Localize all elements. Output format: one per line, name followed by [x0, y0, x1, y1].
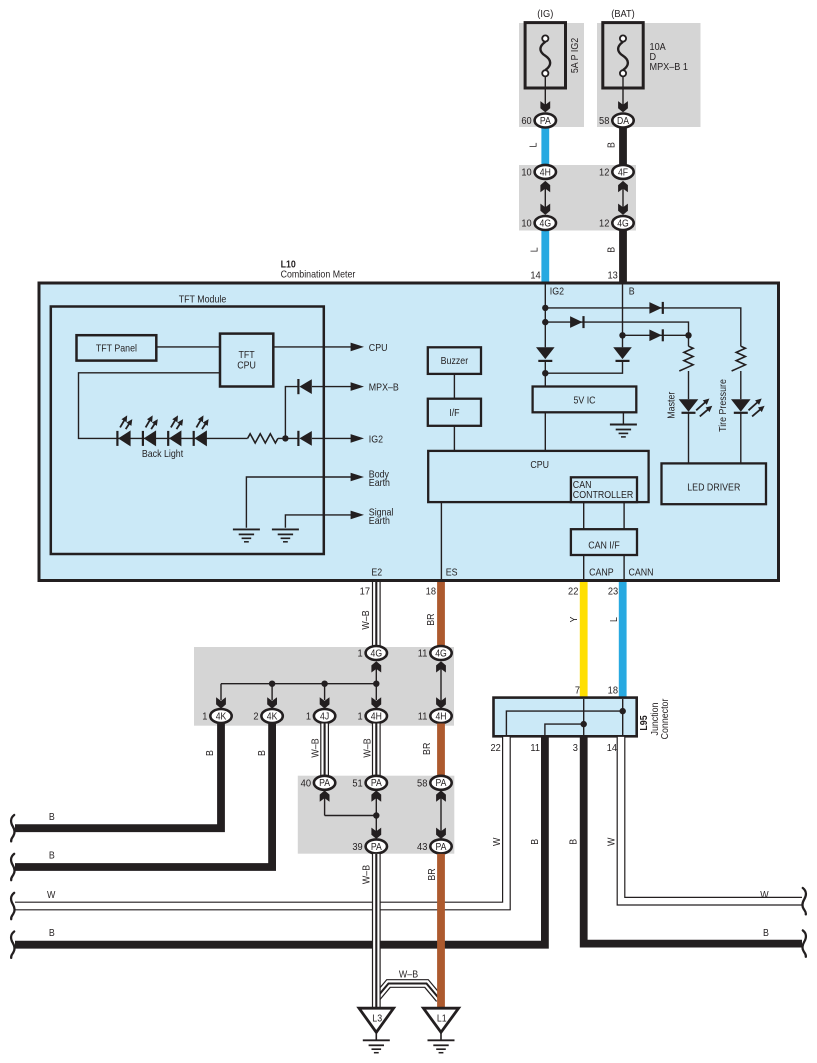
- connector 4K pin 1: [202, 709, 231, 723]
- svg-text:11: 11: [530, 743, 540, 755]
- svg-text:23: 23: [608, 586, 619, 598]
- connector 4G pin 12: [599, 216, 634, 230]
- node PA jumper: [373, 812, 379, 818]
- svg-text:B: B: [49, 850, 55, 862]
- bus bar wire in connector block: [221, 683, 376, 685]
- arrow Body Earth: [351, 473, 364, 482]
- connector PA pin 58: [417, 776, 452, 790]
- svg-text:4H: 4H: [371, 711, 382, 722]
- wire break right (W): [802, 888, 805, 914]
- gray harness background (4H/4F-4G connectors): [519, 165, 636, 231]
- svg-text:W–B: W–B: [361, 610, 373, 629]
- svg-text:4G: 4G: [435, 648, 447, 659]
- svg-text:Tire Pressure: Tire Pressure: [717, 379, 729, 432]
- svg-text:(BAT): (BAT): [611, 9, 635, 21]
- svg-text:B: B: [204, 750, 216, 756]
- svg-text:B: B: [629, 286, 635, 298]
- svg-text:B: B: [606, 142, 618, 148]
- ground (signal earth): [272, 529, 299, 541]
- wire B (black) from 4G to combination meter pin 13: [619, 227, 627, 283]
- svg-text:CONTROLLER: CONTROLLER: [573, 489, 634, 501]
- svg-text:4G: 4G: [617, 218, 629, 229]
- wire resistor to master LED: [688, 371, 690, 399]
- wire W from L95 pin 22 to left: [15, 737, 506, 906]
- connector PA pin 39: [352, 839, 387, 853]
- svg-text:Connector: Connector: [660, 699, 672, 740]
- wire ES internal: [440, 502, 442, 580]
- resistor (tire pressure): [732, 346, 746, 371]
- svg-text:CANN: CANN: [629, 567, 654, 579]
- junction connector L95 box: [494, 698, 637, 737]
- arrow MPX-B: [351, 382, 364, 391]
- connector 4G pin 1: [358, 646, 387, 660]
- svg-text:58: 58: [417, 778, 428, 790]
- svg-text:51: 51: [352, 778, 363, 790]
- node bus/4J: [321, 681, 327, 687]
- CPU box: [428, 451, 648, 502]
- svg-text:CPU: CPU: [530, 459, 549, 471]
- svg-text:MPX–B 1: MPX–B 1: [650, 61, 688, 73]
- diode (MPX-B): [298, 379, 311, 394]
- wire master LED to LED driver: [688, 413, 690, 464]
- arrows between 4H and 4G: [540, 181, 550, 215]
- wire W-B from PA39 to ground L3: [372, 854, 381, 1009]
- svg-text:PA: PA: [540, 115, 552, 126]
- wire B from L95 pin 3 to right: [584, 737, 802, 944]
- wire top rail to tire pressure: [545, 308, 741, 346]
- svg-text:7: 7: [575, 685, 581, 697]
- svg-text:4J: 4J: [320, 711, 329, 722]
- svg-text:1: 1: [358, 648, 364, 660]
- arrow down: [320, 697, 330, 708]
- backlight LED 3: [168, 415, 183, 446]
- connector PA pin 60: [521, 114, 556, 128]
- L95 internal bus to pin 11: [545, 724, 584, 735]
- svg-text:4H: 4H: [540, 167, 551, 178]
- connector 4H pin 1: [358, 709, 387, 723]
- svg-text:14: 14: [530, 270, 541, 282]
- wire B from L95 pin 11 to left: [15, 737, 545, 945]
- wire L (cyan) from 4G to combination meter pin 14: [541, 227, 549, 283]
- svg-text:W: W: [606, 838, 618, 846]
- wire break left (B): [11, 932, 14, 958]
- svg-text:BR: BR: [426, 613, 438, 625]
- svg-text:TFT Module: TFT Module: [179, 294, 227, 306]
- svg-text:PA: PA: [371, 841, 383, 852]
- svg-text:4K: 4K: [216, 711, 227, 722]
- svg-text:1: 1: [202, 711, 208, 723]
- arrow Signal Earth: [351, 511, 364, 520]
- svg-text:L: L: [528, 143, 540, 148]
- svg-text:1: 1: [306, 711, 312, 723]
- wire W-B from 4J to PA40: [320, 724, 329, 778]
- wire CANP internal: [583, 555, 585, 581]
- backlight LED 4: [194, 415, 209, 446]
- wire B from 4K pin 2 to left: [15, 724, 272, 868]
- arrow up into PA40 and jumper to PA51: [320, 790, 377, 815]
- wire BR from 4H pin 11 to PA58: [437, 724, 445, 778]
- node IG2/top rail: [542, 305, 548, 311]
- fuse 5A P IG2: [525, 23, 565, 113]
- node pin7 bus: [581, 721, 587, 727]
- diode (IG2 to 5V): [536, 347, 555, 361]
- wire third rail B to master: [623, 334, 689, 336]
- arrow down: [267, 697, 277, 708]
- arrows between 4F and 4G: [618, 181, 628, 215]
- connector 4K pin 2: [253, 709, 282, 723]
- backlight LED 2: [143, 415, 158, 446]
- wire TFT CPU to backlight chain: [79, 373, 221, 439]
- 5V IC box: [533, 387, 637, 413]
- svg-text:W–B: W–B: [362, 738, 374, 757]
- svg-text:13: 13: [607, 270, 618, 282]
- svg-text:11: 11: [418, 648, 428, 660]
- wire 5V IC to CPU: [544, 412, 546, 451]
- Buzzer box: [428, 347, 481, 374]
- svg-text:B: B: [49, 811, 55, 823]
- svg-text:Earth: Earth: [369, 516, 390, 528]
- gray harness background (4G-4K/4J/4H connectors): [194, 647, 454, 726]
- wire resistor to IG2 diode: [278, 437, 299, 439]
- arrow up into PA58, wire down to PA43: [436, 790, 446, 839]
- wire L (cyan) from PA to 4H: [541, 125, 549, 167]
- svg-text:Master: Master: [666, 392, 678, 419]
- ground point L1: [423, 1008, 458, 1052]
- L95 internal bus: pin 18 to pin 14: [622, 699, 624, 735]
- diode (IG2 second rail): [570, 316, 583, 328]
- svg-text:11: 11: [418, 711, 428, 723]
- I/F box: [428, 399, 481, 426]
- LED master: [679, 399, 713, 417]
- node pin18 bus: [620, 708, 626, 714]
- wire TFT Panel to TFT CPU: [156, 346, 220, 348]
- svg-text:10: 10: [521, 218, 532, 230]
- svg-text:Buzzer: Buzzer: [441, 356, 469, 368]
- wire buzzer to I/F: [453, 374, 455, 399]
- wire MPX-B diode to arrow: [312, 386, 351, 388]
- wire break left (B): [11, 815, 14, 841]
- diode (IG2): [298, 431, 311, 446]
- wires CAN controller to CAN I/F: [583, 502, 585, 529]
- wire CANN internal: [623, 555, 625, 581]
- LED tire pressure: [731, 399, 765, 417]
- LED DRIVER box: [662, 463, 767, 504]
- connector 4G pin 10: [521, 216, 556, 230]
- wire L (CANN) to junction connector: [619, 582, 627, 699]
- wire BR from PA43 to ground L1: [437, 854, 445, 1009]
- wire W-B from E2 to 4G: [372, 582, 381, 648]
- svg-text:18: 18: [608, 685, 619, 697]
- arrow up into PA51, wire down to PA39: [371, 790, 381, 839]
- wire IG2 internal: [544, 284, 546, 347]
- svg-text:PA: PA: [436, 778, 448, 789]
- arrow down: [371, 697, 381, 708]
- svg-text:LED DRIVER: LED DRIVER: [687, 482, 740, 494]
- wire break right (B): [802, 930, 805, 956]
- svg-text:PA: PA: [371, 778, 383, 789]
- wire B (black) from DA to 4F: [619, 125, 627, 167]
- diode (third rail): [649, 329, 662, 341]
- svg-text:Y: Y: [569, 616, 581, 623]
- wire TFT CPU to CPU arrow: [273, 346, 351, 348]
- gray harness background (BAT fuse): [597, 23, 701, 127]
- svg-text:Back Light: Back Light: [142, 449, 184, 461]
- svg-text:L: L: [529, 247, 541, 252]
- wire W from L95 pin 14 to right: [621, 737, 802, 901]
- svg-text:PA: PA: [436, 841, 448, 852]
- svg-text:TFT Panel: TFT Panel: [96, 343, 137, 355]
- svg-text:CPU: CPU: [369, 342, 388, 354]
- svg-text:(IG): (IG): [537, 9, 553, 21]
- svg-text:3: 3: [573, 743, 579, 755]
- L95 internal bus: pin 7 to pin 3: [583, 699, 585, 735]
- TFT Panel box: [77, 335, 157, 360]
- wire second rail to master: [545, 322, 688, 346]
- svg-text:17: 17: [360, 586, 371, 598]
- gray harness background (IG fuse): [519, 23, 584, 127]
- svg-text:W: W: [47, 889, 55, 901]
- svg-text:BR: BR: [422, 742, 434, 754]
- svg-text:W–B: W–B: [310, 738, 322, 757]
- arrow up into 4G pin 1: [371, 661, 381, 684]
- svg-text:B: B: [568, 839, 580, 845]
- svg-text:B: B: [763, 927, 769, 939]
- wire signal earth: [285, 515, 351, 528]
- svg-text:18: 18: [426, 586, 437, 598]
- svg-text:W: W: [492, 838, 504, 846]
- node: diode common: [282, 435, 288, 441]
- svg-text:4G: 4G: [540, 218, 552, 229]
- wire Y (CANP) to junction connector: [580, 582, 588, 699]
- connector 4H pin 10: [521, 165, 556, 179]
- wire break left (W): [11, 893, 14, 919]
- svg-text:1: 1: [358, 711, 364, 723]
- node 5V feed: [542, 370, 548, 376]
- svg-text:12: 12: [599, 167, 610, 179]
- wire diodes to 5V IC: [545, 361, 622, 387]
- connector PA pin 51: [352, 776, 387, 790]
- svg-text:4K: 4K: [267, 711, 278, 722]
- wire B internal: [622, 284, 624, 347]
- svg-text:I/F: I/F: [449, 407, 460, 419]
- svg-text:12: 12: [599, 218, 610, 230]
- arrow IG2: [351, 434, 364, 443]
- wire tire LED to LED driver: [740, 413, 742, 464]
- svg-text:MPX–B: MPX–B: [369, 382, 399, 394]
- svg-text:CAN I/F: CAN I/F: [588, 540, 620, 552]
- svg-text:5A P IG2: 5A P IG2: [570, 38, 582, 73]
- wire W-B branch to ground L1: [376, 984, 439, 1000]
- svg-text:22: 22: [568, 586, 579, 598]
- svg-text:43: 43: [417, 842, 428, 854]
- svg-text:CPU: CPU: [237, 360, 256, 372]
- connector 4H pin 11: [418, 709, 452, 723]
- diode (B to 5V): [613, 347, 632, 361]
- wire break left (B): [11, 854, 14, 880]
- TFT CPU box: [220, 334, 273, 387]
- svg-text:L95: L95: [638, 715, 650, 730]
- svg-text:22: 22: [490, 743, 501, 755]
- svg-text:B: B: [49, 927, 55, 939]
- arrows between 4G and 4H pin 11: [436, 661, 446, 708]
- resistor (master): [679, 346, 693, 371]
- svg-text:PA: PA: [319, 778, 331, 789]
- wire I/F to CPU: [453, 426, 455, 451]
- wire 5V IC to ground: [622, 412, 624, 424]
- L95 internal bus to pin 22: [506, 711, 622, 735]
- svg-text:4H: 4H: [435, 711, 446, 722]
- svg-text:39: 39: [352, 842, 363, 854]
- svg-text:L1: L1: [437, 1013, 447, 1025]
- svg-text:CANP: CANP: [589, 567, 614, 579]
- svg-text:W: W: [760, 890, 768, 902]
- TFT Module box: [51, 307, 324, 555]
- wires down to 4K/4K/4J/4H: [220, 684, 222, 700]
- svg-text:DA: DA: [617, 115, 630, 126]
- svg-text:ES: ES: [446, 567, 458, 579]
- svg-text:B: B: [256, 750, 268, 756]
- svg-text:10: 10: [521, 167, 532, 179]
- svg-text:BR: BR: [427, 868, 439, 880]
- svg-text:58: 58: [599, 116, 610, 128]
- connector 4J pin 1: [306, 709, 335, 723]
- svg-text:W–B: W–B: [361, 865, 373, 884]
- resistor (backlight): [248, 434, 278, 443]
- ground (5V IC): [610, 425, 637, 437]
- wire BR from ES to 4G: [437, 582, 445, 648]
- connector DA pin 58: [599, 114, 634, 128]
- connector 4G pin 11: [418, 646, 452, 660]
- backlight LED chain wire: [117, 437, 247, 439]
- svg-text:L: L: [608, 617, 620, 622]
- connector PA pin 43: [417, 839, 452, 853]
- node master feed: [685, 332, 691, 338]
- svg-text:60: 60: [521, 116, 532, 128]
- node IG2/second rail: [542, 319, 548, 325]
- svg-text:5V IC: 5V IC: [573, 395, 595, 407]
- gray harness background (PA connectors): [298, 776, 455, 854]
- node B/third rail: [619, 332, 625, 338]
- svg-text:L3: L3: [372, 1013, 382, 1025]
- fuse label 10A D MPX-B 1: [650, 41, 688, 73]
- backlight LED 1: [117, 415, 132, 446]
- wire IG2 diode to arrow: [312, 437, 351, 439]
- node bus/4K2: [269, 681, 275, 687]
- wire body earth: [246, 477, 351, 528]
- svg-text:40: 40: [301, 778, 312, 790]
- svg-text:E2: E2: [371, 567, 382, 579]
- svg-text:IG2: IG2: [550, 286, 564, 298]
- svg-text:Combination Meter: Combination Meter: [281, 269, 356, 281]
- wire node to MPX-B diode: [285, 387, 298, 439]
- arrow down: [216, 697, 226, 708]
- connector PA pin 40: [301, 776, 336, 790]
- connector 4F pin 12: [599, 165, 634, 179]
- wire W-B from 4H to PA51: [372, 724, 381, 778]
- svg-text:4G: 4G: [371, 648, 383, 659]
- CAN CONTROLLER box: [571, 477, 637, 502]
- svg-text:IG2: IG2: [369, 434, 383, 446]
- node bus/4H: [373, 681, 379, 687]
- svg-text:B: B: [530, 839, 542, 845]
- L10 Combination Meter box: [39, 283, 779, 581]
- wire B from 4K pin 1 to left: [15, 724, 221, 829]
- ground (body earth): [233, 529, 260, 541]
- svg-text:Earth: Earth: [369, 478, 390, 490]
- svg-text:W–B: W–B: [399, 969, 418, 981]
- svg-text:B: B: [606, 247, 618, 253]
- CAN I/F box: [571, 529, 637, 555]
- svg-text:4F: 4F: [618, 167, 628, 178]
- wire resistor to tire LED: [740, 371, 742, 399]
- svg-text:14: 14: [607, 743, 618, 755]
- diode (B rail top): [649, 302, 662, 314]
- arrow CPU: [351, 343, 364, 352]
- svg-text:2: 2: [253, 711, 259, 723]
- ground point L3: [359, 1008, 394, 1052]
- fuse 10A D MPX-B 1: [603, 23, 643, 113]
